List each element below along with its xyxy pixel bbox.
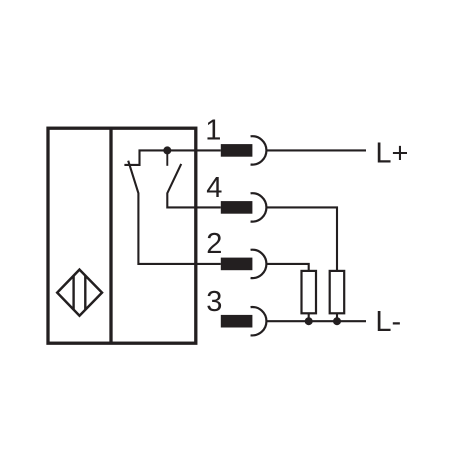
pin 4 contact bar [221,201,253,214]
sensor body box [48,128,196,343]
connector socket arc pin 1 [251,136,267,164]
wire pin 1 to L+ [267,149,367,151]
svg-text:4: 4 [206,172,222,204]
switch blade NO to pin 4 wire [167,164,221,208]
resistor R1 [302,271,317,313]
pin 2 contact bar [221,258,253,271]
svg-text:L-: L- [375,306,401,338]
pin 3 contact bar [221,315,253,328]
connector socket arc pin 2 [251,250,267,278]
svg-text:3: 3 [206,286,222,318]
resistor R2 stub [336,313,338,321]
svg-text:1: 1 [205,115,221,147]
junction node R1/L- [305,317,313,325]
resistor R2 [330,271,345,313]
svg-text:L+: L+ [375,138,408,170]
sensor symbol diamond [57,270,102,316]
junction node R2/L- [333,317,341,325]
wire pin 4 to resistor R2 [267,207,338,271]
wire pin 3 to L- [267,320,367,322]
sensor body divider [109,128,112,343]
wire pin 2 to resistor R1 [267,264,309,271]
sensor symbol inner line left [72,276,74,310]
connector socket arc pin 4 [251,193,267,221]
connector socket arc pin 3 [251,307,267,335]
wire supply to pin 1 [124,150,220,165]
sensor symbol inner line right [84,276,86,310]
svg-text:2: 2 [206,228,222,260]
junction node pin1 feed [163,146,171,154]
wire contact stub NO [166,150,168,165]
switch blade NC to pin 2 wire [128,161,221,264]
pin 1 contact bar [221,144,253,157]
resistor R1 stub [308,313,310,321]
